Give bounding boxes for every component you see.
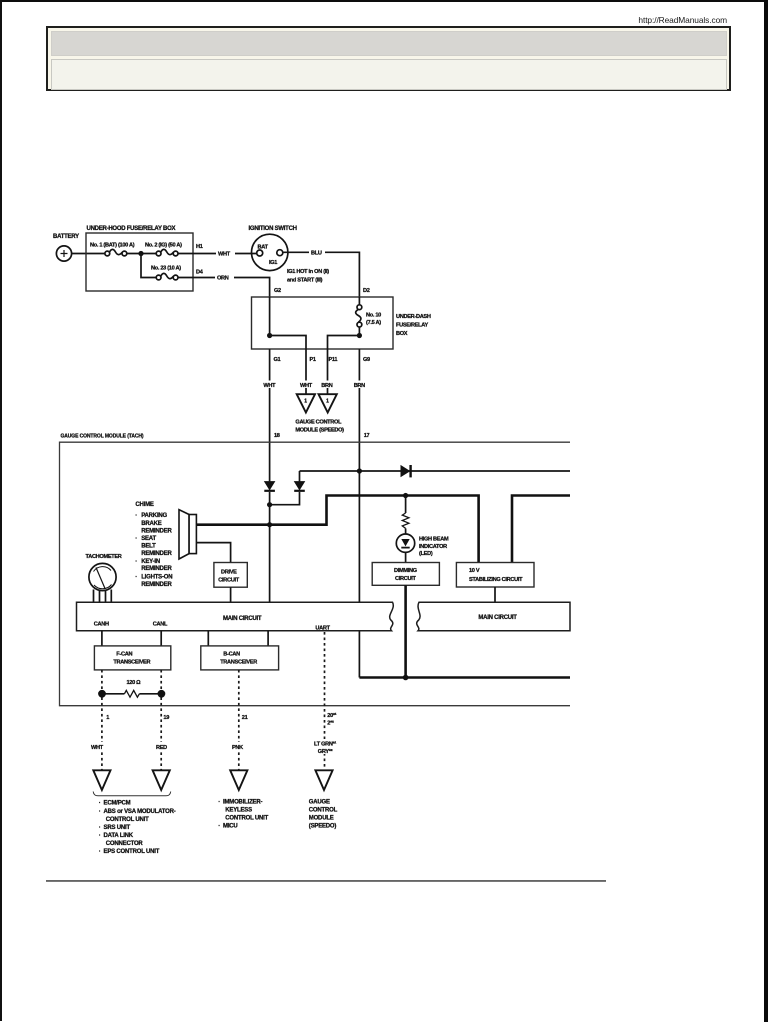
wire CANL to F-CAN	[160, 631, 162, 646]
svg-text:TRANSCEIVER: TRANSCEIVER	[113, 660, 150, 666]
svg-text:WHT: WHT	[218, 252, 231, 258]
svg-text:CONTROL UNIT: CONTROL UNIT	[225, 816, 268, 822]
wire LED to dimming circuit	[405, 552, 407, 562]
label WHT on G1	[263, 381, 276, 390]
svg-text:RED: RED	[156, 745, 167, 751]
svg-text:WHT: WHT	[91, 745, 104, 751]
svg-text:BRAKE: BRAKE	[141, 521, 162, 527]
svg-text:BELT: BELT	[141, 544, 156, 550]
wire diode D2 out to join D1	[270, 492, 300, 505]
dimming circuit box	[372, 563, 439, 586]
dashed wire UART out	[324, 632, 326, 770]
svg-text:No. 2 (IG) (50 A): No. 2 (IG) (50 A)	[145, 243, 182, 249]
watermark url text	[0, 15, 727, 25]
wire diode output down to main circuit	[269, 492, 271, 603]
svg-text:IGNITION SWITCH: IGNITION SWITCH	[249, 226, 297, 232]
svg-text:G1: G1	[274, 357, 281, 363]
svg-text:No. 1 (BAT) (100 A): No. 1 (BAT) (100 A)	[90, 243, 135, 249]
svg-text:SEAT: SEAT	[141, 536, 156, 542]
svg-text:CONTROL: CONTROL	[309, 807, 338, 813]
svg-text:1: 1	[106, 715, 109, 721]
wire WHT fusebox to ignition BAT	[178, 253, 257, 255]
svg-text:REMINDER: REMINDER	[141, 566, 172, 572]
svg-text:· MICU: · MICU	[218, 824, 237, 830]
junction	[267, 333, 272, 338]
wire G1 down to diode	[269, 349, 271, 481]
svg-text:TACHOMETER: TACHOMETER	[86, 554, 122, 560]
wire G9 down through module	[358, 349, 360, 678]
wire speaker feed (thick)	[197, 496, 479, 563]
chime speaker	[179, 510, 196, 559]
wire BLU ignition to D2	[283, 252, 359, 297]
battery	[53, 234, 79, 261]
label GAUGE CONTROL MODULE (SPEEDO)	[295, 420, 344, 434]
gauge control module (TACH) box	[60, 434, 571, 706]
svg-text:and START (III): and START (III)	[287, 278, 323, 284]
connector triangle (LT GRN/GRY)	[315, 770, 332, 790]
connector triangle (RED)	[153, 770, 170, 790]
page top border	[0, 0, 768, 2]
svg-text:10 V: 10 V	[469, 568, 480, 574]
svg-text:GRY*²: GRY*²	[318, 748, 333, 755]
main circuit bus bar (right)	[417, 602, 570, 631]
svg-text:GAUGE: GAUGE	[309, 800, 330, 806]
svg-text:No. 10: No. 10	[366, 313, 381, 319]
svg-text:G2: G2	[274, 288, 281, 294]
svg-text:CONNECTOR: CONNECTOR	[106, 841, 144, 847]
dashed wire B-CAN out	[238, 670, 240, 770]
wire battery to fuse No.1	[72, 253, 105, 255]
svg-text:· ECM/PCM: · ECM/PCM	[99, 801, 131, 807]
label RED	[155, 742, 169, 751]
svg-text:(SPEEDO): (SPEEDO)	[309, 824, 337, 830]
junction chime feed	[267, 522, 272, 527]
destination list (CAN bus units)	[99, 801, 176, 856]
junction	[357, 333, 362, 338]
svg-text:17: 17	[364, 433, 370, 439]
label LT GRN*1 / GRY*2	[314, 739, 339, 755]
wire fuse1 to fuse2	[127, 253, 156, 255]
svg-text:REMINDER: REMINDER	[141, 551, 172, 557]
wire ORN fusebox to G2	[178, 278, 270, 298]
wire bus corner down to diode D2b	[299, 471, 301, 481]
fuse No.2 (IG) (50 A)	[145, 243, 182, 256]
svg-text:REMINDER: REMINDER	[141, 529, 172, 535]
svg-text:(LED): (LED)	[419, 551, 433, 557]
svg-text:·: ·	[135, 513, 137, 519]
wire P1 to connector	[305, 349, 307, 394]
page right border	[764, 0, 768, 1022]
svg-text:FUSE/RELAY: FUSE/RELAY	[396, 323, 428, 329]
label BRN on P11	[321, 381, 334, 390]
svg-text:D2: D2	[363, 288, 370, 294]
svg-text:No. 23 (10 A): No. 23 (10 A)	[151, 266, 181, 272]
svg-text:F-CAN: F-CAN	[116, 652, 132, 658]
svg-text:UART: UART	[315, 626, 330, 632]
ignition switch	[249, 226, 297, 271]
svg-text:TRANSCEIVER: TRANSCEIVER	[220, 660, 257, 666]
fuse No.23 (10 A)	[151, 266, 181, 280]
tachometer	[86, 554, 122, 603]
svg-text:GAUGE CONTROL MODULE (TACH): GAUGE CONTROL MODULE (TACH)	[61, 434, 144, 440]
label WHT on P1	[300, 381, 313, 390]
destination list (immobilizer)	[218, 800, 268, 830]
junction dimming feed	[403, 493, 408, 498]
wire CANH to F-CAN	[101, 631, 103, 646]
svg-text:· EPS CONTROL UNIT: · EPS CONTROL UNIT	[99, 849, 160, 855]
svg-text:ORN: ORN	[217, 276, 229, 282]
svg-text:CHIME: CHIME	[135, 502, 154, 508]
footer rule	[46, 880, 606, 882]
label BLU	[309, 248, 325, 257]
svg-text:MAIN CIRCUIT: MAIN CIRCUIT	[478, 615, 517, 621]
svg-text:D4: D4	[196, 270, 204, 276]
svg-text:KEYLESS: KEYLESS	[225, 807, 252, 813]
svg-text:2*²: 2*²	[327, 720, 334, 727]
chime label list	[135, 502, 172, 588]
connector triangle 1 (P1)	[297, 394, 315, 412]
svg-text:· DATA LINK: · DATA LINK	[99, 833, 134, 839]
diode D3 (series, horizontal)	[401, 465, 411, 477]
svg-text:18: 18	[274, 433, 280, 439]
svg-text:WHT: WHT	[263, 383, 276, 389]
brace grouping WHT/RED connectors	[93, 792, 171, 796]
label WHT	[91, 742, 107, 751]
B-CAN transceiver box	[201, 646, 279, 670]
connector triangle 2 (P11)	[319, 394, 337, 412]
svg-text:·: ·	[135, 575, 137, 581]
svg-text:CIRCUIT: CIRCUIT	[395, 576, 416, 582]
junction G9/feed	[357, 468, 362, 473]
svg-text:CIRCUIT: CIRCUIT	[218, 578, 239, 584]
terminating resistor 120 ohm	[98, 680, 165, 698]
wire right feed from speedo side (thick)	[512, 496, 570, 563]
wire junction to fuse No.23	[141, 254, 156, 278]
svg-text:GAUGE CONTROL: GAUGE CONTROL	[295, 420, 342, 426]
svg-text:P11: P11	[329, 357, 338, 363]
svg-text:DRIVE: DRIVE	[221, 570, 237, 576]
fuse No.10 (7.5 A)	[356, 297, 382, 336]
wire dimming circuit to bus (thick)	[404, 585, 407, 677]
svg-text:BLU: BLU	[311, 251, 322, 257]
svg-text:KEY-IN: KEY-IN	[141, 559, 160, 565]
svg-text:IG1: IG1	[269, 260, 277, 266]
svg-text:(7.5 A): (7.5 A)	[366, 320, 381, 326]
svg-text:MAIN CIRCUIT: MAIN CIRCUIT	[223, 616, 262, 622]
label BRN on G9	[353, 381, 366, 390]
svg-text:19: 19	[163, 715, 169, 721]
header table	[46, 26, 731, 91]
diode D2 (on BLU feed)	[294, 482, 305, 491]
wire G2 down inside box	[269, 297, 271, 336]
destination label (gauge control module speedo)	[309, 800, 338, 830]
high beam indicator LED	[396, 534, 449, 557]
svg-text:BATTERY: BATTERY	[53, 234, 79, 240]
wire to P11	[328, 336, 360, 350]
svg-text:PNK: PNK	[232, 745, 243, 751]
svg-text:· SRS UNIT: · SRS UNIT	[99, 825, 131, 831]
fuse No.1 (BAT) (100 A)	[90, 243, 135, 256]
svg-text:P1: P1	[310, 357, 316, 363]
wire stabilizing to main circuit	[494, 587, 496, 603]
svg-text:BRN: BRN	[354, 383, 365, 389]
svg-text:UNDER-DASH: UNDER-DASH	[396, 314, 431, 320]
svg-text:H1: H1	[196, 244, 203, 250]
note IG1 HOT	[287, 269, 329, 284]
svg-text:120 Ω: 120 Ω	[127, 680, 142, 686]
svg-text:CONTROL UNIT: CONTROL UNIT	[106, 817, 149, 823]
svg-text:BOX: BOX	[396, 331, 408, 337]
svg-text:DIMMING: DIMMING	[394, 568, 417, 574]
wire drive circuit to main circuit	[230, 587, 232, 602]
svg-text:· IMMOBILIZER-: · IMMOBILIZER-	[218, 800, 262, 806]
dashed wire CANH out	[101, 670, 103, 770]
10V stabilizing circuit box	[456, 563, 534, 588]
connector triangle (WHT)	[93, 770, 110, 790]
svg-text:CANH: CANH	[94, 621, 109, 627]
svg-text:HIGH BEAM: HIGH BEAM	[419, 537, 449, 543]
svg-text:REMINDER: REMINDER	[141, 582, 172, 588]
page left border	[0, 0, 2, 1021]
junction diode outputs	[267, 502, 272, 507]
svg-text:UNDER-HOOD FUSE/RELAY BOX: UNDER-HOOD FUSE/RELAY BOX	[87, 226, 176, 232]
under-dash fuse/relay box	[252, 297, 431, 349]
svg-text:G9: G9	[363, 357, 370, 363]
dashed wire CANL out	[160, 670, 162, 770]
connector triangle (PNK)	[230, 770, 247, 790]
wire to B-CAN (right)	[267, 631, 269, 646]
resistor (high beam dropping)	[402, 496, 409, 535]
svg-text:STABILIZING CIRCUIT: STABILIZING CIRCUIT	[469, 577, 523, 583]
label WHT	[216, 249, 235, 258]
wire BRN bus corner to right (thick)	[359, 676, 570, 679]
svg-text:CANL: CANL	[153, 621, 168, 627]
svg-text:PARKING: PARKING	[141, 513, 167, 519]
wire to P1	[270, 336, 306, 350]
svg-text:21: 21	[242, 715, 248, 721]
svg-text:·: ·	[135, 559, 137, 565]
svg-text:20*¹: 20*¹	[327, 712, 336, 719]
wire P11 to connector	[327, 349, 329, 394]
svg-text:· ABS or VSA MODULATOR-: · ABS or VSA MODULATOR-	[99, 809, 176, 815]
svg-text:·: ·	[135, 536, 137, 542]
diode D1 (on WHT feed)	[264, 482, 275, 491]
svg-text:IG1 HOT in ON (II): IG1 HOT in ON (II)	[287, 269, 329, 275]
F-CAN transceiver box	[94, 646, 170, 670]
drive circuit box	[214, 563, 247, 588]
svg-text:LIGHTS-ON: LIGHTS-ON	[141, 575, 172, 581]
svg-text:BRN: BRN	[321, 383, 332, 389]
under-hood fuse/relay box	[86, 226, 193, 291]
junction	[138, 251, 143, 256]
svg-text:B-CAN: B-CAN	[223, 652, 240, 658]
svg-text:MODULE (SPEEDO): MODULE (SPEEDO)	[295, 428, 344, 434]
svg-text:LT GRN*¹: LT GRN*¹	[314, 741, 336, 748]
wire speaker to drive circuit	[197, 543, 231, 563]
label ORN	[215, 273, 234, 282]
svg-text:WHT: WHT	[300, 383, 313, 389]
wire to B-CAN (left)	[207, 631, 209, 646]
svg-text:MODULE: MODULE	[309, 816, 334, 822]
main circuit bus bar (left)	[77, 602, 394, 631]
wire IG1 feed bus (diode to right)	[300, 470, 571, 472]
junction dimming/bus	[403, 675, 409, 681]
svg-text:INDICATOR: INDICATOR	[419, 544, 447, 550]
label PNK	[232, 742, 246, 751]
